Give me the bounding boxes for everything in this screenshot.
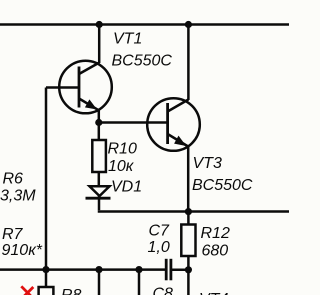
wire bottom rail xyxy=(0,268,165,271)
svg-text:R8: R8 xyxy=(61,287,82,295)
svg-text:1,0: 1,0 xyxy=(148,239,170,256)
svg-text:R12: R12 xyxy=(201,225,230,242)
svg-text:680: 680 xyxy=(202,243,229,260)
wire VT1 collector to rail xyxy=(98,25,101,64)
svg-text:C8: C8 xyxy=(153,286,174,295)
wire top supply rail xyxy=(0,23,289,26)
svg-text:R10: R10 xyxy=(108,141,137,158)
node junction C7 right / R12 bottom xyxy=(185,266,192,273)
svg-text:10к: 10к xyxy=(108,158,135,175)
wire down from R12 node xyxy=(187,270,190,295)
deleted-part cross (red X) xyxy=(21,286,34,295)
node junction VT1 emitter xyxy=(95,119,102,126)
svg-text:VT3: VT3 xyxy=(193,155,222,172)
wire left vertical (R6/R7 column) xyxy=(45,88,48,270)
wire down from x99 xyxy=(98,270,101,295)
wire VT1 base left xyxy=(46,86,79,89)
svg-text:BC550C: BC550C xyxy=(192,177,253,194)
resistor R8 (cut off at bottom) xyxy=(39,287,54,295)
wire R12 top lead xyxy=(187,212,190,225)
capacitor C7 xyxy=(166,259,171,281)
wire VT1 emitter to VT3 base xyxy=(99,121,168,124)
transistor Q VT1 xyxy=(59,61,112,123)
svg-text:910к*: 910к* xyxy=(2,242,43,259)
svg-text:VD1: VD1 xyxy=(111,179,142,196)
node junction x139 xyxy=(135,266,142,273)
transistor Q VT3 xyxy=(147,98,200,211)
resistor R12 xyxy=(181,225,195,257)
svg-text:BC550C: BC550C xyxy=(112,53,173,70)
wire VD1 to right rail xyxy=(99,210,289,211)
node junction emitter VT3 / R12 xyxy=(185,208,192,215)
svg-text:C7: C7 xyxy=(149,223,171,240)
wire R8 top lead xyxy=(45,270,48,287)
node junction R7 column xyxy=(42,266,49,273)
wire R10 top lead xyxy=(98,123,101,141)
node junction x99 xyxy=(95,266,102,273)
svg-text:R6: R6 xyxy=(3,171,24,188)
wire VT3 collector to rail xyxy=(187,25,190,101)
svg-text:3,3M: 3,3M xyxy=(0,188,36,205)
node junction rail / VT3 collector xyxy=(185,21,192,28)
wire R10 to VD1 xyxy=(98,172,101,186)
resistor R10 xyxy=(92,140,106,172)
wire down from x139 xyxy=(138,270,141,295)
wire R12 bottom lead xyxy=(187,256,190,270)
node junction rail / VT1 collector xyxy=(96,21,103,28)
wire C7 right lead xyxy=(171,269,189,272)
svg-text:R7: R7 xyxy=(2,226,24,243)
svg-text:VT4: VT4 xyxy=(199,291,228,295)
diode VD1 xyxy=(86,186,111,210)
svg-text:VT1: VT1 xyxy=(113,31,142,48)
